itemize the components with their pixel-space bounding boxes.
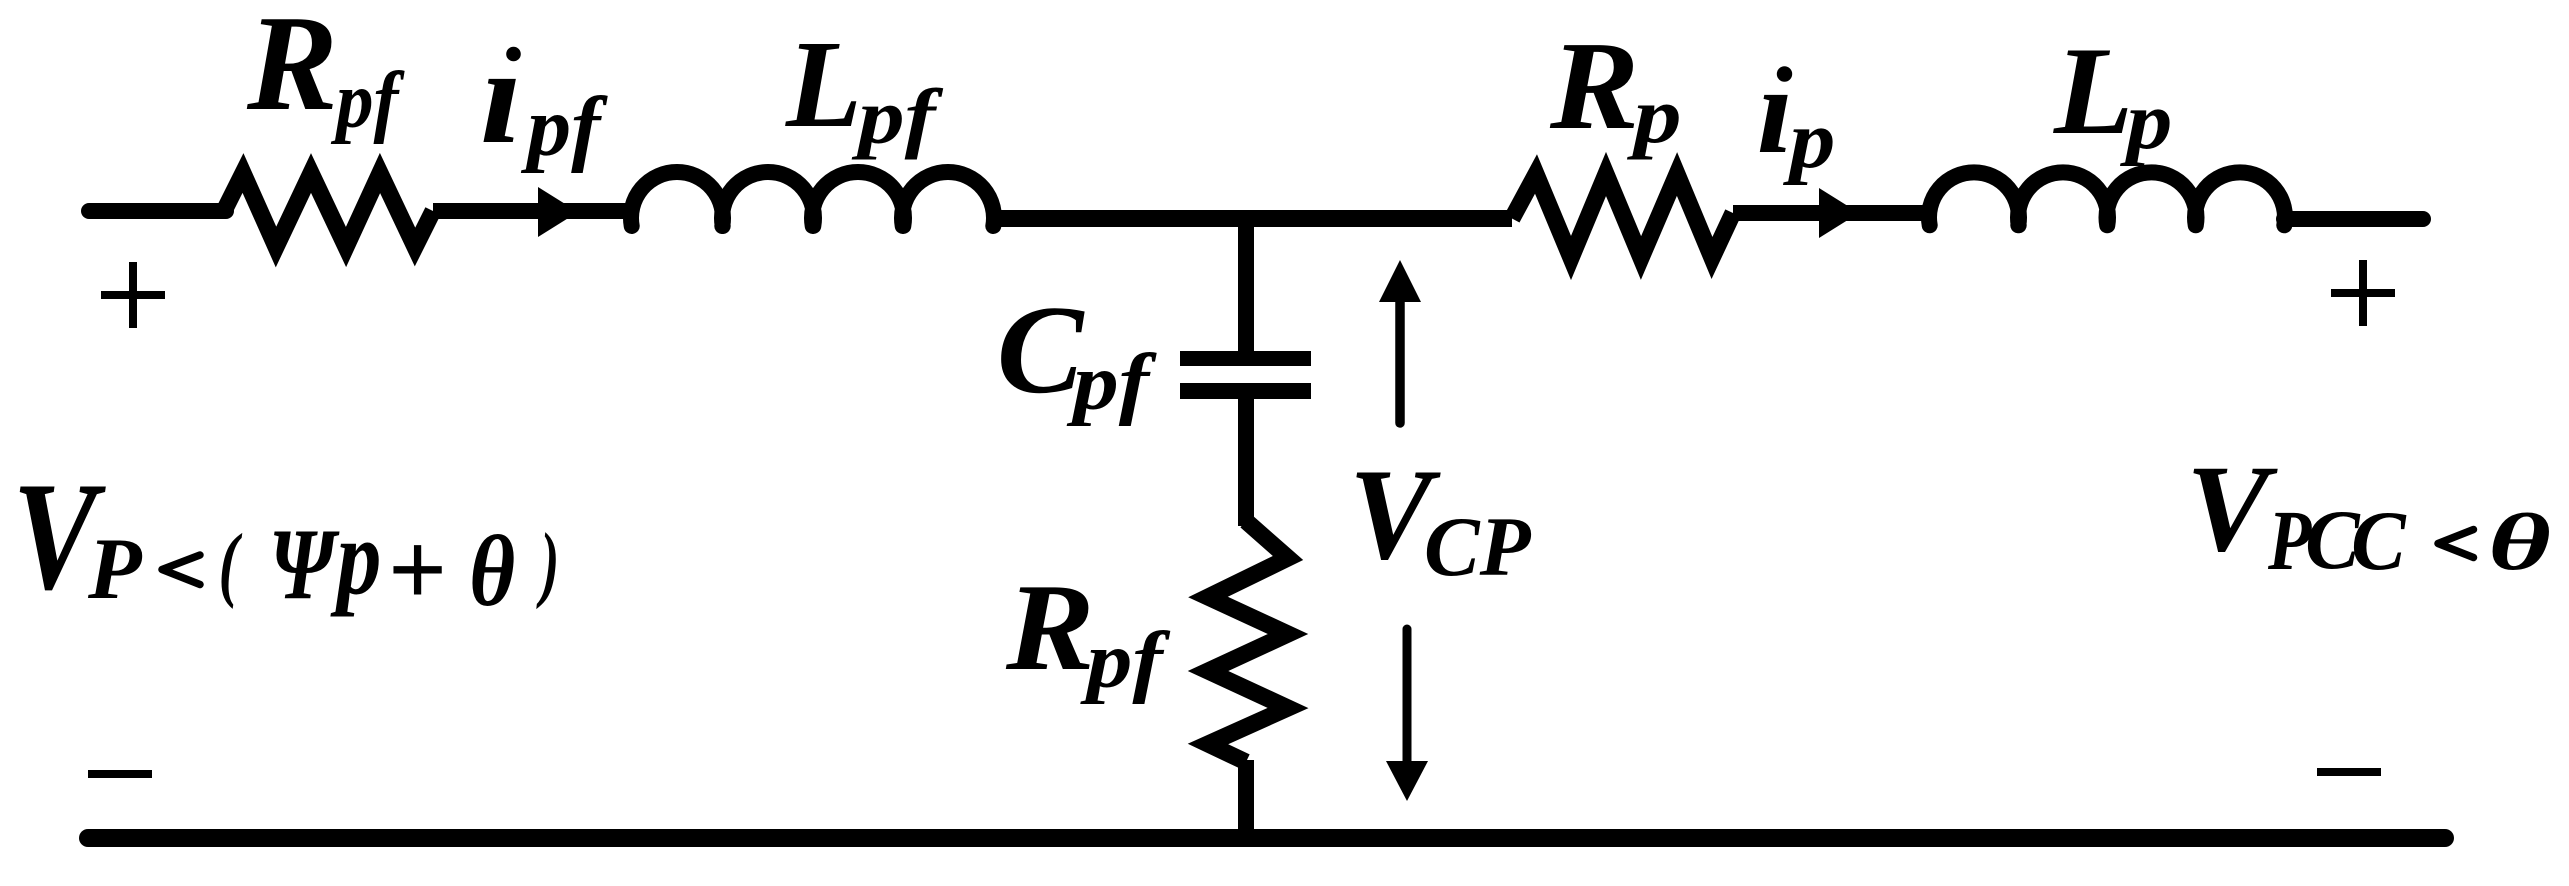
arrow ip current [1819,188,1859,238]
resistor R3 (Rp) [1512,174,1733,258]
svg-text:p: p [2119,75,2172,167]
arrow Vcp positive direction (up) [1395,301,1405,423]
svg-text:L: L [785,15,862,153]
svg-text:ı: ı [1757,41,1793,179]
wire bottom rail [88,829,2445,847]
svg-text:p: p [1782,94,1835,186]
resistor R2 (Rpf shunt) [1208,521,1288,762]
wire resistor to bottom rail [1238,760,1254,838]
plus sign left [101,291,165,299]
svg-text:pf: pf [520,80,608,174]
svg-text:p: p [330,499,382,618]
capacitor C1 (Cpf) top plate [1180,351,1311,366]
minus sign right [2317,768,2381,776]
svg-text:R: R [246,0,338,139]
svg-text:+: + [387,510,446,628]
svg-text:CP: CP [1424,501,1531,595]
svg-text:C: C [997,280,1085,420]
svg-text:R: R [1005,558,1095,696]
angle symbol right [2438,530,2474,558]
minus sign left [88,770,152,778]
svg-text:pf: pf [1066,337,1157,427]
plus sign right [2331,289,2395,297]
arrow ipf current [538,187,578,237]
svg-text:ı: ı [480,21,522,173]
inductor L1 (Lpf) [631,172,994,226]
svg-text:θ: θ [469,515,515,628]
svg-text:P: P [87,521,143,618]
arrow Vcp negative direction (down) [1403,629,1412,762]
capacitor C1 (Cpf) bottom plate [1180,383,1311,399]
inductor L2 (Lp) [1929,172,2285,225]
svg-text:θ: θ [2488,498,2551,587]
wire right output [2284,211,2423,227]
svg-text:pf: pf [330,56,405,145]
svg-text:p: p [1626,72,1681,161]
svg-text:pf: pf [851,74,944,160]
wire to inductor Lpf [433,203,632,219]
wire to inductor Lp [1733,205,1932,221]
svg-text:Ψ: Ψ [269,508,340,620]
svg-text:C: C [2351,495,2407,589]
svg-text:R: R [1549,16,1639,156]
svg-text:pf: pf [1079,616,1170,705]
node A junction stem [1238,220,1254,353]
wire middle rail to node [991,210,1512,227]
svg-text:L: L [2053,21,2133,161]
wire left input [89,203,226,219]
svg-text:V: V [2186,439,2278,577]
resistor R1 (Rpf series) [224,173,433,247]
wire cap to resistor Rpf shunt [1238,392,1254,526]
angle symbol left [162,555,200,585]
